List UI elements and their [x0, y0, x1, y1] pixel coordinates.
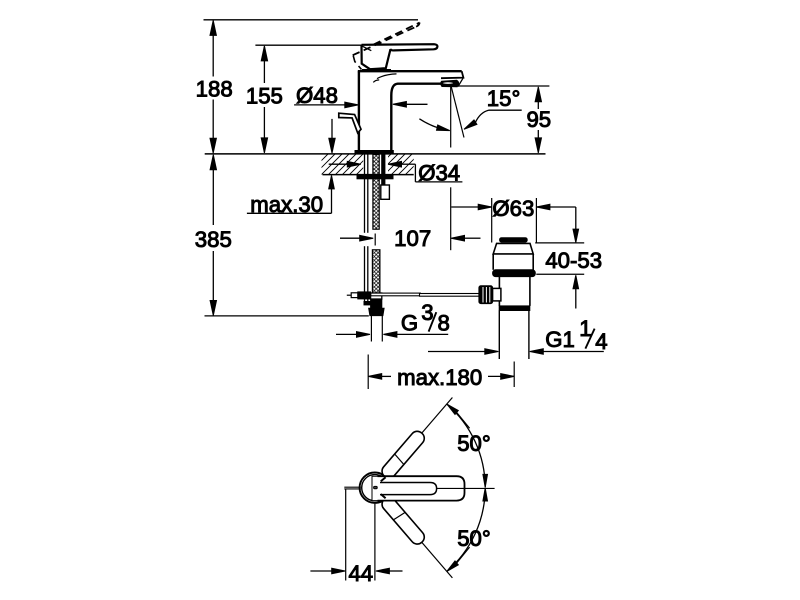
dimension 155 vertical line with arrows [261, 46, 267, 153]
water stream axis vertical line [450, 87, 452, 148]
dimension 188 vertical line with arrows [210, 20, 216, 153]
drain body bottom band [499, 306, 530, 311]
dimension 155 top reference line [255, 44, 361, 46]
svg-text:95: 95 [526, 107, 551, 132]
svg-text:G1: G1 [545, 327, 575, 352]
plan view: pop-up rod tick at left [344, 487, 361, 489]
dimension 44 with arrows [310, 568, 402, 574]
svg-text:50°: 50° [457, 431, 491, 456]
svg-text:44: 44 [348, 561, 373, 586]
50 degree arc upper with arrows [447, 404, 488, 487]
plan view: 50 degree rays [385, 398, 452, 476]
plan view: lower rotated lever capsule [379, 495, 427, 547]
second hose stub [381, 154, 390, 199]
dimension G 3/8 with arrows [336, 332, 448, 338]
faucet base plate [355, 151, 393, 155]
countertop surface line [205, 153, 546, 155]
15 degrees arc with arrow at vertical axis [419, 119, 449, 131]
hose end reference line (385 bottom) [205, 315, 369, 317]
svg-text:G: G [401, 310, 418, 335]
svg-text:Ø63: Ø63 [492, 196, 534, 221]
svg-text:8: 8 [438, 311, 450, 336]
svg-text:107: 107 [394, 226, 431, 251]
50 degree leader lower [457, 547, 470, 563]
drain stopper cap [500, 238, 528, 242]
pull rod upper segment [365, 154, 368, 233]
countertop hatching right of hole [292, 153, 427, 176]
dimension 95 reference line from spout outlet [458, 85, 550, 87]
plan view: capsule edge slivers at lever junction [381, 477, 386, 498]
dimension Ø34 arrows at mounting hole [329, 161, 463, 182]
dimension 107 with arrows [340, 235, 481, 241]
pop-up rod lever on body [339, 113, 361, 133]
svg-text:15°: 15° [487, 86, 521, 111]
svg-text:385: 385 [195, 227, 232, 252]
drain tailpipe [499, 311, 529, 360]
dimension 40-53 vertical line with arrows [535, 207, 584, 309]
faucet centerline tick [374, 234, 376, 246]
plan view: straight lever outline [378, 476, 465, 500]
plan view: faucet body inner circle [362, 475, 388, 501]
pull rod lower segment [364, 246, 370, 305]
rod clamp screw at pull rod [347, 292, 371, 299]
dashed lever handle (raised position) [353, 23, 420, 70]
dimension 385 vertical line with arrows [210, 155, 216, 316]
plan view: faucet body outer circle [360, 473, 390, 503]
dimension 15 degrees text with leader [464, 86, 522, 129]
50 degree leader upper [457, 412, 470, 428]
dimension 95 vertical line with arrows [535, 87, 541, 153]
drain flange cone [493, 243, 533, 254]
svg-text:40-53: 40-53 [545, 248, 602, 273]
dimension 44 extension lines [346, 490, 375, 581]
svg-text:max.180: max.180 [397, 365, 482, 390]
dimension text G 3/8 [401, 300, 450, 335]
svg-text:Ø34: Ø34 [418, 160, 460, 185]
dimension 188 top reference line [204, 19, 419, 21]
dimension max.180 with arrows [368, 355, 514, 390]
horizontal pop-up linkage rod [371, 293, 479, 296]
50 degree arc lower with arrows [447, 488, 488, 571]
faucet body and spout [358, 70, 464, 151]
dimension G 1 1/4 with arrows [428, 349, 604, 355]
drain lower body [499, 277, 530, 306]
svg-text:50°: 50° [457, 526, 491, 551]
dimension text G 1 1/4 [545, 316, 607, 354]
reference arrow pointing down to countertop [329, 119, 335, 153]
countertop bottom line [323, 174, 414, 176]
water stream 15 degree slanted line [451, 87, 464, 138]
svg-text:188: 188 [196, 76, 233, 101]
drain O-ring seal [493, 270, 536, 277]
mounting washer under countertop [357, 175, 393, 179]
dimension Ø63 with arrows [451, 198, 576, 243]
countertop hatching left of hole [292, 153, 427, 176]
braided hose lower segment [372, 250, 380, 293]
plan view: upper rotated lever capsule [379, 429, 427, 481]
plan view: logo mark in circle [374, 486, 378, 488]
svg-text:4: 4 [595, 329, 607, 354]
dimension max.30 with underline and arrow [247, 175, 334, 216]
knob connector cylinder [493, 288, 501, 301]
plan view: horizontal centerline [437, 487, 495, 489]
threaded shank / braided hose upper segment [373, 155, 379, 230]
plan view: lever inner contour [380, 483, 437, 495]
hose end fitting [369, 293, 384, 342]
dimension text Ø48 with leader arrow [294, 83, 358, 108]
plan view: straight lever fill [372, 476, 465, 500]
Ø48 inner arrow pointing left at body edge [393, 102, 428, 108]
svg-text:155: 155 [246, 84, 283, 109]
drain centerline extension [513, 362, 515, 388]
spout outlet extension line [450, 187, 452, 250]
knurled adjusting knob [479, 286, 493, 304]
drain upper body [493, 254, 533, 270]
faucet lever handle (rest position) [362, 44, 438, 69]
aerator at spout tip [441, 78, 464, 87]
